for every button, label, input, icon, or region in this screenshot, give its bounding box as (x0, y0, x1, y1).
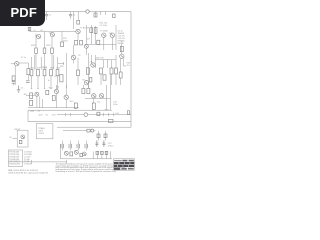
resistor R46 (52, 96, 55, 101)
wire left drop (27, 110, 29, 121)
resistor R7 (37, 70, 40, 76)
wire driver res tail (77, 76, 79, 86)
wire center column B (88, 53, 90, 88)
svg-text:R17: R17 (49, 88, 54, 90)
wire feedback run (27, 75, 29, 80)
resistor R13 (90, 28, 93, 33)
svg-text:2k2: 2k2 (127, 65, 131, 67)
svg-text:C6: C6 (57, 87, 60, 89)
transistor Q6 (110, 33, 114, 37)
wire cap tail (13, 83, 15, 85)
wire reg run 2 (101, 151, 103, 159)
resistor R33 (80, 153, 83, 156)
resistor R30 (128, 111, 130, 115)
transistor Q15 (64, 151, 68, 155)
schematic frame right border (130, 12, 132, 128)
transistor Q10 (64, 95, 68, 99)
wire center column A (66, 53, 68, 88)
wire R43 stub (77, 12, 79, 21)
capacitor C11 (102, 140, 105, 147)
svg-text:C9 100n: C9 100n (100, 25, 108, 27)
wire emitter pair A (34, 55, 36, 70)
wire mid link (26, 95, 35, 97)
resistor R31 (19, 140, 22, 143)
wire reg run 3 (106, 151, 108, 159)
svg-text:R12: R12 (31, 111, 36, 113)
schematic frame bottom border (57, 126, 131, 128)
capacitor C1 (45, 14, 48, 16)
wire res feed 1 (82, 85, 84, 88)
schematic frame top border (3, 11, 131, 13)
wire right run 1 (105, 85, 107, 110)
wire R45 tail (120, 78, 122, 85)
svg-text:D3: D3 (87, 39, 90, 41)
transformer T1 (36, 124, 53, 139)
wire Q18 emitter (73, 60, 75, 64)
resistor R3 (35, 48, 38, 53)
wire feedback branch (27, 63, 29, 69)
svg-text:R41 1k: R41 1k (118, 43, 124, 45)
title block (114, 159, 135, 170)
wire cap feed (93, 98, 95, 103)
terminal J1 (86, 10, 89, 13)
resistor R34 (96, 151, 99, 154)
resistor R20 (97, 112, 100, 115)
wire Q18 collector (73, 45, 75, 55)
svg-text:R31: R31 (31, 68, 36, 70)
svg-text:heatsinking of at least 1 K/W: heatsinking of at least 1 K/W per channe… (56, 170, 117, 173)
svg-text:R28: R28 (105, 110, 110, 112)
svg-text:R33: R33 (44, 68, 49, 70)
resistor R11 (75, 40, 78, 45)
wire Q7 emitter (120, 58, 122, 72)
capacitor C4 (12, 82, 16, 84)
transistor Q5 (102, 33, 106, 37)
transistor Q1 (37, 35, 41, 39)
transistor Q13 (91, 63, 95, 67)
resistor R36 (105, 151, 108, 154)
wire mid col 6 (111, 74, 113, 85)
svg-text:T10: T10 (109, 33, 113, 35)
wire mid col 7 (115, 74, 117, 85)
wire bottom run 2 (37, 76, 39, 89)
wire right cluster 1 (90, 25, 92, 44)
component value labels (9, 15, 131, 148)
wire emitter pair B (53, 55, 55, 70)
wire rect feed 2 (105, 131, 107, 140)
resistor R26 (100, 68, 103, 74)
wire top stub C (95, 12, 97, 18)
svg-text:IN: IN (9, 137, 12, 139)
resistor R45 (119, 72, 122, 78)
parts table rows (9, 152, 32, 166)
resistor R18 (12, 76, 15, 81)
resistor R12 (80, 40, 83, 45)
resistor R5 (51, 48, 54, 53)
wire bias branch (61, 32, 63, 43)
svg-text:C4: C4 (73, 15, 76, 17)
terminal J2 (84, 113, 88, 117)
wire Q1 emitter (35, 34, 37, 49)
rail input node (19, 62, 28, 64)
wire top stub B (70, 12, 72, 20)
resistor R48 (28, 27, 31, 30)
wire Q4 emitter (85, 48, 87, 55)
resistor R35 (101, 151, 104, 154)
capacitor C5 (92, 103, 95, 109)
rail right bus (85, 97, 111, 99)
transistor Q17 (82, 152, 86, 156)
svg-text:LS 8ohm: LS 8ohm (24, 164, 32, 166)
svg-text:R26 330: R26 330 (96, 58, 104, 60)
parts table box (8, 150, 22, 166)
rail ground bus (8, 161, 67, 163)
resistor R25 (87, 88, 90, 93)
node tick 5 (112, 113, 114, 116)
wire mid col 3 (111, 60, 113, 68)
transistor Q3 (76, 29, 80, 33)
resistor R8 (43, 70, 46, 76)
rail driver bus (85, 43, 116, 45)
transistor Q11 (92, 94, 96, 98)
svg-text:R32: R32 (37, 68, 42, 70)
resistor R29 (115, 68, 118, 74)
node tick 1 (65, 113, 67, 116)
wire fuse tail (94, 130, 96, 132)
resistor R28 (110, 68, 113, 74)
wire input lead left (11, 63, 15, 65)
resistor R27 (103, 75, 106, 80)
wire link (41, 66, 47, 68)
wire emitter run 1 (35, 53, 37, 69)
resistor R42 (89, 78, 92, 83)
svg-text:2x36V: 2x36V (38, 133, 44, 135)
resistor R10 (56, 70, 59, 76)
svg-text:C1 1u: C1 1u (21, 57, 26, 59)
svg-text:T9 2N30: T9 2N30 (100, 31, 109, 33)
resistor R37 (60, 75, 63, 82)
wire mid run 1 (36, 96, 38, 107)
svg-text:MBL 4.20.6.99 D.T.H. 4.20.6: MBL 4.20.6.99 D.T.H. 4.20.6.9 (8, 170, 38, 172)
capacitor C6 (61, 144, 63, 148)
resistor R43 (77, 20, 80, 24)
svg-text:C7: C7 (38, 111, 41, 113)
resistor R14 (94, 28, 97, 34)
wire top stub D (100, 12, 102, 16)
resistor R47 (30, 100, 33, 105)
wire driver res top (77, 58, 79, 70)
wire input lead (13, 138, 18, 140)
wire output column 2 (44, 32, 46, 49)
resistor R32 (70, 152, 73, 156)
transistor Q2 (50, 33, 54, 37)
rail psu bus (60, 158, 112, 160)
wire psu drop 4 (86, 141, 88, 151)
wire reg run 1 (96, 151, 98, 159)
svg-text:0R22: 0R22 (63, 41, 69, 43)
wire Q20 emitter (56, 94, 58, 108)
input module box (17, 130, 28, 147)
resistor R2 (61, 42, 64, 47)
wire Q10 collector (65, 85, 67, 95)
resistor R15 (97, 40, 100, 44)
wire Q2 emitter (51, 37, 53, 48)
wire mid run 3 (42, 99, 44, 108)
wire psu left edge (59, 144, 61, 159)
resistor R23 (46, 90, 49, 94)
wire mid run 2 (39, 96, 41, 107)
svg-text:0V: 0V (46, 115, 49, 117)
svg-text:C8: C8 (90, 62, 93, 64)
resistor R9 (50, 70, 53, 76)
resistor R38 (86, 68, 89, 74)
resistor R1 (94, 13, 97, 17)
wire Q3 collector (77, 34, 79, 41)
wire right cluster 3 (115, 25, 117, 50)
wire Q20 collector (56, 85, 58, 89)
transistor Q8 (15, 62, 19, 66)
resistor R49 (77, 70, 80, 76)
wire emitter run 3 (51, 53, 53, 69)
wire res feed 2 (87, 85, 89, 88)
svg-text:-42V: -42V (52, 115, 57, 117)
wire Q5 emitter (103, 37, 105, 50)
wire right cluster 2 (95, 26, 97, 44)
svg-text:T8: T8 (78, 55, 81, 57)
resistor R6 (30, 70, 33, 76)
fuse F1 (87, 129, 94, 132)
wire right run 2 (109, 74, 111, 110)
node tick 3 (102, 113, 104, 116)
transistor Q4 (84, 44, 88, 48)
svg-text:+42V: +42V (38, 115, 43, 117)
wire bottom run 3 (44, 76, 46, 89)
wire Q4 collector (85, 25, 87, 44)
wire reg mid (92, 152, 94, 159)
wire bottom run 4 (50, 76, 52, 89)
wire bottom run 5 (57, 76, 59, 89)
svg-text:INPUT: INPUT (15, 129, 22, 131)
wire driver link (96, 59, 117, 61)
capacitor C2 (69, 14, 72, 16)
wire Q6 emitter (111, 37, 113, 50)
capacitor C10 (95, 140, 98, 147)
svg-text:T12: T12 (97, 102, 101, 104)
svg-text:R19: R19 (70, 101, 75, 103)
description paragraph (56, 163, 128, 173)
diode D6 (104, 134, 107, 138)
transistor Q12 (99, 94, 103, 98)
resistor R44 (113, 14, 116, 18)
wire mid right run (91, 55, 93, 63)
wire emitter pair C (40, 57, 42, 70)
wire psu drop 3 (78, 141, 80, 151)
svg-text:C3: C3 (21, 88, 24, 90)
wire mid col 1 (95, 55, 97, 68)
svg-text:C2: C2 (49, 15, 52, 17)
transistor Q14 (21, 135, 25, 139)
wire emitter run 2 (44, 53, 46, 69)
transistor Q19 (84, 81, 88, 85)
node tick 4 (107, 113, 109, 116)
wire emitter run 5 (57, 57, 59, 70)
svg-text:R25: R25 (60, 66, 65, 68)
rail lower bus 1 (57, 114, 131, 116)
wire mid col 4 (115, 55, 117, 68)
svg-text:T7 BD139: T7 BD139 (80, 28, 90, 30)
wire psu drop 1 (62, 141, 64, 151)
resistor R21 (108, 119, 113, 122)
wire emitter run 4 (31, 57, 33, 70)
resistor R4 (43, 48, 46, 53)
capacitor C7 (69, 144, 71, 148)
svg-text:TR6 MJ2955: TR6 MJ2955 (9, 164, 20, 166)
wire bottom run 1 (31, 76, 33, 89)
resistor R24 (82, 88, 85, 93)
diode D5 (97, 134, 100, 138)
wire right column (121, 40, 123, 54)
rail output node bus (28, 109, 112, 111)
rail upper-left bus (30, 31, 76, 33)
wire Q10 emitter (65, 100, 67, 108)
wire mains run (63, 130, 87, 132)
node stub right (65, 160, 67, 164)
wire top stub A (46, 12, 48, 21)
wire mid col 5 (100, 74, 102, 85)
wire reg run 4 (110, 151, 112, 159)
capacitor C3 (26, 81, 30, 83)
svg-text:100n: 100n (113, 104, 117, 106)
resistor R22 (74, 103, 77, 108)
wire psu drop 2 (70, 141, 72, 151)
wire mid col 2 (104, 60, 108, 69)
node stub left (30, 160, 32, 164)
svg-text:C5: C5 (54, 76, 57, 78)
transistor Q16 (74, 150, 78, 154)
capacitor C9 (85, 144, 87, 148)
wire Q7 collector (123, 58, 126, 66)
svg-text:4700u: 4700u (108, 146, 114, 148)
ground (17, 86, 20, 93)
svg-text:1k: 1k (48, 80, 50, 82)
transistor Q18 (71, 55, 76, 60)
transistor Q9 (35, 92, 39, 96)
wire V+ feed (73, 12, 75, 30)
node tick 2 (70, 113, 72, 116)
wire rect feed 1 (98, 131, 100, 140)
wire top stub E (105, 12, 107, 16)
resistor R16 (120, 46, 123, 51)
transistor Q7 (120, 54, 124, 58)
rail lower bus 2 (28, 121, 131, 123)
svg-text:0R22: 0R22 (46, 45, 52, 47)
resistor R17 (27, 69, 30, 75)
wire badge stub (29, 27, 31, 32)
wire input tail (14, 66, 16, 85)
wire bias link (58, 62, 64, 65)
resistor R19 (30, 93, 33, 99)
right margin notes list (118, 31, 125, 46)
svg-text:4376 4.20.8.99 Tol. expressio: 4376 4.20.8.99 Tol. expression model 43 (8, 172, 48, 175)
rail mid bus (28, 107, 79, 109)
transistor Q20 (54, 89, 58, 93)
capacitor C8 (77, 144, 79, 148)
